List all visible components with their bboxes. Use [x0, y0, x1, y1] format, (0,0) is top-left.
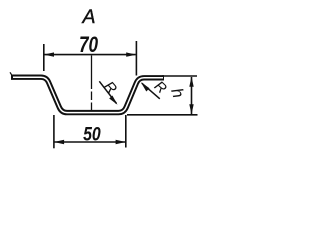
dimension 50: line: [55, 141, 126, 143]
svg-text:70: 70: [79, 33, 98, 58]
sheet-metal profile (hat channel section): [11, 77, 164, 112]
sheet end tick at left tip: [10, 72, 12, 75]
dimension 50: extension lines: [54, 115, 126, 148]
svg-text:A: A: [81, 6, 95, 28]
leader radius R right: line: [142, 83, 160, 99]
profile inner white line: [13, 77, 163, 112]
dimension 70: extension lines: [44, 41, 137, 76]
leader radius R left: line: [99, 81, 116, 103]
svg-text:50: 50: [83, 123, 101, 145]
leader R right: arrowhead: [141, 82, 150, 91]
dimension h: line: [191, 77, 193, 114]
dimension 50: arrowheads: [54, 140, 64, 144]
leader R left: arrowhead: [109, 96, 117, 105]
dimension h: arrowheads: [189, 77, 193, 87]
dimension 70: line: [45, 54, 136, 56]
center line: [91, 56, 93, 112]
dimension 70: arrowheads: [44, 52, 54, 56]
dimension h: extension lines: [127, 76, 198, 115]
